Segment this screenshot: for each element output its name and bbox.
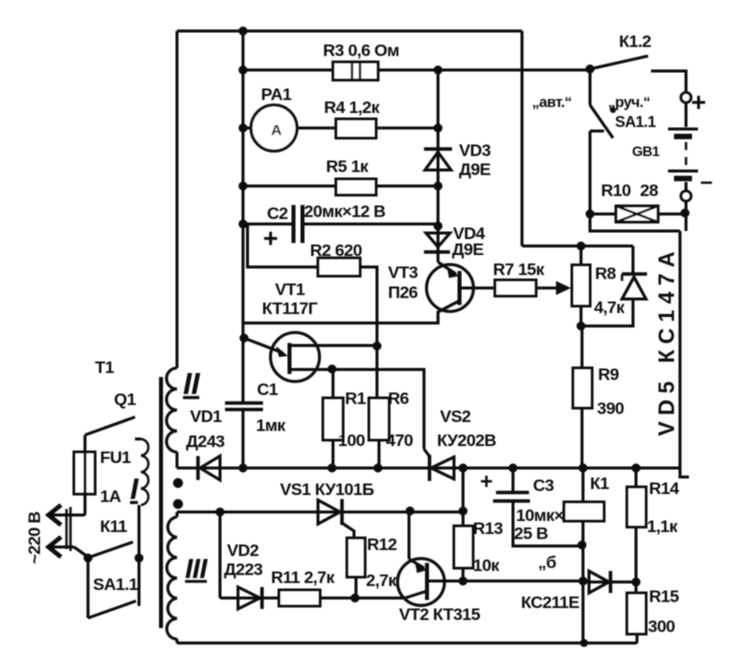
svg-text:А: А	[271, 122, 282, 139]
svg-text:VD1: VD1	[190, 407, 222, 426]
svg-text:R1: R1	[345, 389, 366, 408]
svg-text:R6: R6	[388, 389, 409, 408]
svg-text:~220 В: ~220 В	[25, 511, 44, 564]
svg-text:К1: К1	[590, 474, 609, 493]
svg-text:10к: 10к	[473, 556, 500, 575]
svg-text:Д223: Д223	[224, 560, 263, 579]
svg-text:VT3: VT3	[388, 263, 418, 282]
svg-text:25 В: 25 В	[514, 524, 548, 543]
svg-text:R4 1,2к: R4 1,2к	[324, 98, 380, 117]
svg-text:28: 28	[640, 181, 658, 200]
svg-text:+: +	[480, 469, 492, 494]
svg-text:1,1к: 1,1к	[647, 517, 678, 536]
svg-text:R14: R14	[649, 479, 680, 498]
svg-text:VS2: VS2	[440, 407, 471, 426]
svg-text:R9: R9	[598, 365, 619, 384]
svg-text:КУ202В: КУ202В	[437, 431, 496, 450]
svg-text:−: −	[700, 170, 712, 195]
svg-text:R3 0,6 Ом: R3 0,6 Ом	[323, 41, 399, 60]
svg-text:R5 1к: R5 1к	[326, 157, 369, 176]
svg-text:Q1: Q1	[114, 390, 136, 409]
svg-text:VT1: VT1	[275, 280, 305, 299]
svg-text:VT2 КТ315: VT2 КТ315	[399, 605, 480, 624]
svg-text:10мк×: 10мк×	[516, 506, 564, 525]
svg-text:SA1.1: SA1.1	[615, 114, 656, 131]
svg-text:II: II	[183, 366, 201, 401]
svg-text:C3: C3	[533, 476, 554, 495]
svg-text:К11: К11	[100, 517, 127, 536]
svg-text:GB1: GB1	[632, 143, 660, 159]
svg-text:Д9Е: Д9Е	[459, 160, 491, 179]
svg-text:КТ117Г: КТ117Г	[262, 299, 318, 318]
svg-text:III: III	[185, 553, 209, 584]
svg-text:R13: R13	[473, 519, 503, 538]
svg-text:SA1.1: SA1.1	[93, 575, 138, 594]
svg-text:R7 15к: R7 15к	[493, 260, 545, 279]
svg-text:VD2: VD2	[227, 541, 259, 560]
svg-text:470: 470	[386, 431, 413, 450]
svg-text:+: +	[263, 223, 278, 253]
svg-text:„руч.“: „руч.“	[608, 94, 650, 111]
svg-text:+: +	[691, 87, 706, 117]
svg-text:„б: „б	[538, 553, 556, 572]
svg-text:300: 300	[648, 617, 675, 636]
svg-text:П26: П26	[388, 283, 418, 302]
svg-text:К1.2: К1.2	[619, 32, 651, 51]
svg-text:FU1: FU1	[100, 448, 131, 467]
svg-text:VD3: VD3	[459, 141, 491, 160]
svg-text:R10: R10	[601, 181, 631, 200]
svg-text:R12: R12	[367, 535, 397, 554]
svg-text:1А: 1А	[100, 487, 121, 506]
svg-text:C2: C2	[267, 204, 288, 223]
svg-text:C1: C1	[257, 380, 278, 399]
svg-text:20мк×12 В: 20мк×12 В	[304, 202, 386, 221]
svg-text:Д9Е: Д9Е	[452, 240, 484, 259]
svg-text:2,7к: 2,7к	[366, 571, 397, 590]
svg-text:4,7к: 4,7к	[594, 298, 625, 317]
svg-text:Т1: Т1	[95, 358, 114, 377]
svg-text:„авт.“: „авт.“	[532, 94, 572, 111]
svg-text:R8: R8	[595, 264, 616, 283]
svg-text:PA1: PA1	[261, 85, 291, 104]
svg-text:390: 390	[597, 399, 624, 418]
svg-text:Д243: Д243	[186, 432, 225, 451]
svg-text:I: I	[130, 473, 139, 506]
svg-text:VS1 КУ101Б: VS1 КУ101Б	[280, 480, 374, 499]
svg-text:VD5 КС147А: VD5 КС147А	[654, 245, 679, 436]
svg-text:1мк: 1мк	[256, 416, 286, 435]
svg-text:100: 100	[338, 431, 365, 450]
svg-text:R15: R15	[649, 587, 679, 606]
svg-text:КС211Е: КС211Е	[521, 593, 579, 612]
svg-text:R2 620: R2 620	[310, 241, 362, 260]
svg-text:R11 2,7к: R11 2,7к	[271, 568, 335, 587]
